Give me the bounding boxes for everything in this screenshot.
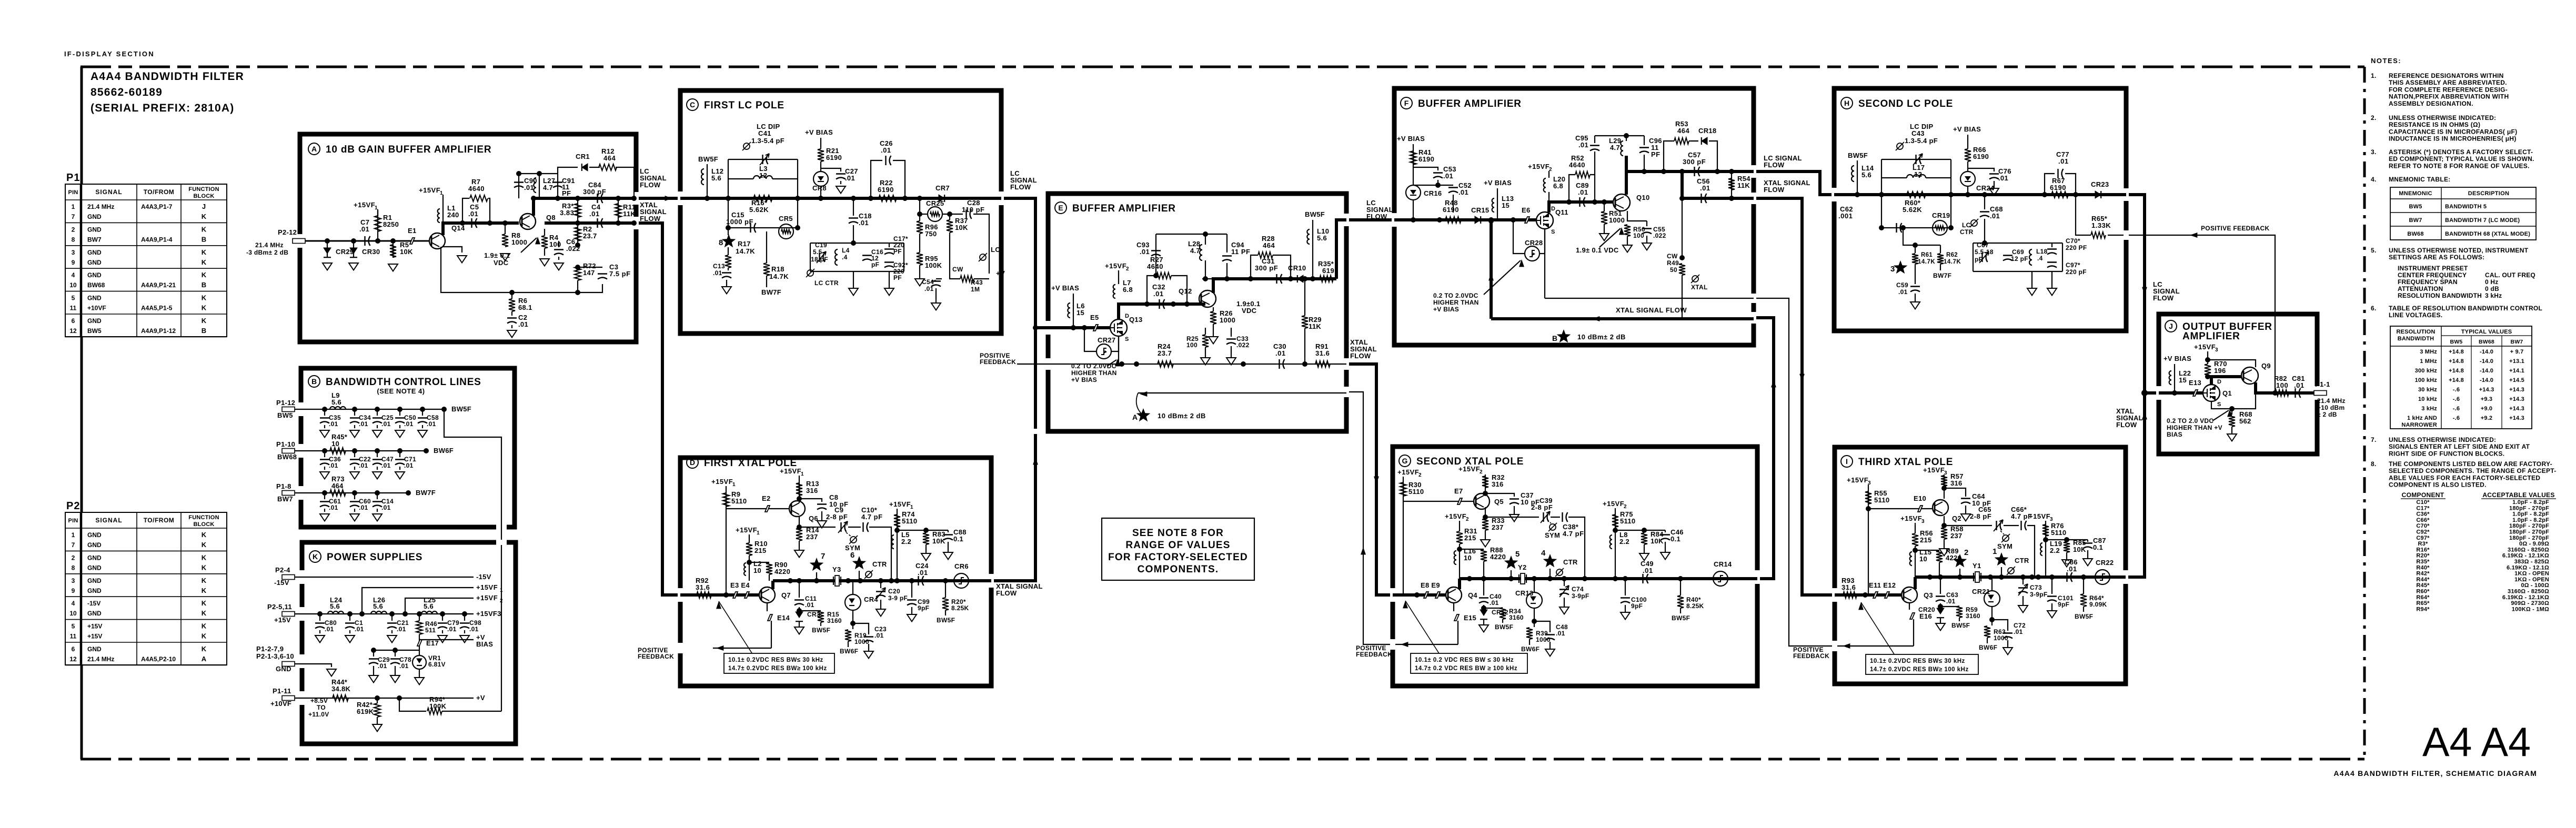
- svg-text:6.19KΩ - 12.1Ω: 6.19KΩ - 12.1Ω: [2507, 564, 2549, 571]
- svg-text:P1-2-7,9: P1-2-7,9: [256, 645, 284, 653]
- capacitor C69: [2003, 256, 2012, 261]
- svg-text:85662-60189: 85662-60189: [90, 86, 163, 98]
- svg-text:BW6F: BW6F: [840, 648, 858, 655]
- BW5 filter row: [282, 407, 295, 412]
- svg-text:Y1: Y1: [1973, 562, 1981, 570]
- ground H filter: [2031, 271, 2032, 288]
- diode CR16 circled: [1406, 185, 1421, 200]
- svg-text:R43: R43: [971, 279, 983, 286]
- svg-text:P2-4: P2-4: [275, 566, 290, 574]
- svg-text:2: 2: [72, 554, 75, 561]
- svg-text:-3 dBm± 2 dB: -3 dBm± 2 dB: [246, 249, 288, 256]
- svg-text:GND: GND: [87, 541, 102, 549]
- svg-text:E5: E5: [1090, 314, 1099, 321]
- svg-text:4: 4: [1541, 549, 1546, 558]
- svg-text:S: S: [1551, 229, 1555, 235]
- svg-text:P1-12: P1-12: [276, 399, 295, 407]
- D vdc box: [724, 653, 834, 673]
- diode CR14 circled: [1713, 571, 1728, 586]
- svg-text:SYM: SYM: [1997, 542, 2012, 550]
- svg-text:1KΩ - OPEN: 1KΩ - OPEN: [2514, 571, 2549, 577]
- svg-text:+15V: +15V: [87, 623, 102, 630]
- svg-text:1: 1: [1993, 547, 1997, 556]
- svg-text:14.7± 0.2 VDC RES BW ≥ 100 kHz: 14.7± 0.2 VDC RES BW ≥ 100 kHz: [1415, 665, 1517, 672]
- inductor L8: [1610, 535, 1612, 549]
- feedthrough E17: [419, 634, 420, 650]
- wire D XTAL out up to E: [991, 328, 1035, 581]
- arrowhead D feedback: [716, 645, 723, 651]
- feedthrough E1: [410, 238, 415, 244]
- capacitor C81: [2296, 388, 2301, 398]
- svg-text:SEE NOTE 8 FOR: SEE NOTE 8 FOR: [1132, 528, 1224, 539]
- svg-text:UNLESS OTHERWISE INDICATED:: UNLESS OTHERWISE INDICATED:: [2389, 114, 2496, 122]
- wire F main out bus: [1626, 170, 1754, 173]
- svg-text:R64*: R64*: [2416, 594, 2430, 601]
- resistor R58: [1944, 516, 1945, 527]
- svg-text:8250: 8250: [383, 220, 399, 228]
- wire G main bus: [1460, 577, 1757, 580]
- svg-text:14.7K: 14.7K: [1918, 259, 1935, 265]
- svg-text:14.7± 0.2VDC RES BW≥ 100 kHz: 14.7± 0.2VDC RES BW≥ 100 kHz: [1870, 667, 1969, 673]
- svg-text:PF: PF: [893, 274, 902, 281]
- svg-text:A: A: [311, 145, 317, 153]
- svg-text:FIRST LC POLE: FIRST LC POLE: [704, 100, 784, 111]
- svg-text:.01: .01: [359, 225, 369, 233]
- svg-text:3: 3: [72, 577, 75, 584]
- function block A frame: [300, 134, 636, 342]
- svg-text:XTAL: XTAL: [1691, 284, 1708, 291]
- diode CR25 circled: [928, 207, 942, 221]
- svg-text:10: 10: [331, 440, 339, 448]
- capacitor C94: [1226, 234, 1227, 253]
- svg-text:100K: 100K: [925, 261, 942, 269]
- svg-text:FOR FACTORY-SELECTED: FOR FACTORY-SELECTED: [1108, 552, 1248, 563]
- svg-text:11K: 11K: [1737, 181, 1750, 189]
- svg-text:6190: 6190: [826, 154, 842, 161]
- svg-text:619: 619: [1322, 267, 1334, 275]
- svg-text:-15V: -15V: [87, 600, 100, 607]
- svg-text:C70*: C70*: [2416, 523, 2430, 529]
- svg-text:REFER TO NOTE 8 FOR RANGE OF V: REFER TO NOTE 8 FOR RANGE OF VALUES.: [2389, 162, 2530, 169]
- star 3 H: [1894, 260, 1908, 274]
- svg-text:I: I: [1846, 457, 1848, 466]
- svg-text:464: 464: [603, 154, 616, 162]
- svg-text:+14.3: +14.3: [2509, 406, 2524, 412]
- svg-text:S: S: [2217, 401, 2221, 408]
- wire R83 C88 rail: [894, 528, 900, 533]
- capacitor C46: [1665, 530, 1666, 532]
- diode CR20: [1940, 603, 1941, 608]
- svg-text:10K: 10K: [932, 537, 945, 545]
- svg-text:FUNCTION: FUNCTION: [188, 186, 219, 193]
- svg-text:1000: 1000: [1536, 636, 1551, 643]
- svg-text:1.3-5.4 pF: 1.3-5.4 pF: [751, 137, 784, 145]
- svg-text:pF: pF: [1975, 256, 1983, 263]
- svg-text:NOTES:: NOTES:: [2371, 57, 2401, 65]
- wire Q2 collector row: [1941, 523, 1947, 528]
- svg-text:+15VF3: +15VF3: [476, 610, 501, 618]
- svg-text:RIGHT SIDE OF FUNCTION BLOCKS.: RIGHT SIDE OF FUNCTION BLOCKS.: [2389, 450, 2504, 457]
- capacitor C63: [1940, 577, 1941, 594]
- svg-text:0 dB: 0 dB: [2485, 285, 2499, 292]
- svg-text:5.6: 5.6: [711, 174, 721, 182]
- resistor R15: [818, 611, 824, 622]
- svg-text:2: 2: [1624, 504, 1627, 510]
- wire Q7 collector to bus: [771, 581, 774, 589]
- svg-text:BW5: BW5: [2450, 339, 2463, 345]
- svg-text:GND: GND: [87, 259, 102, 266]
- svg-text:-15V: -15V: [274, 579, 289, 587]
- svg-text:CR7: CR7: [935, 184, 950, 192]
- svg-text:21.4 MHz: 21.4 MHz: [255, 241, 284, 249]
- capacitor C72: [1992, 620, 2008, 631]
- svg-text:(SERIAL PREFIX: 2810A): (SERIAL PREFIX: 2810A): [90, 102, 234, 114]
- capacitor C84: [598, 194, 603, 203]
- svg-text:4220: 4220: [774, 568, 790, 575]
- svg-text:3: 3: [1890, 265, 1895, 274]
- svg-text:100: 100: [549, 240, 561, 248]
- svg-text:R35*: R35*: [2416, 559, 2430, 565]
- resistor R37: [947, 211, 952, 217]
- svg-text:+9.0: +9.0: [2481, 406, 2493, 412]
- svg-text:+13.1: +13.1: [2509, 358, 2524, 365]
- svg-text:15: 15: [1502, 201, 1510, 209]
- svg-text:C36*: C36*: [2416, 511, 2430, 518]
- svg-text:CR10: CR10: [1288, 264, 1306, 272]
- svg-text:BW7F: BW7F: [1933, 272, 1951, 279]
- svg-text:BANDWIDTH 7 (LC MODE): BANDWIDTH 7 (LC MODE): [2445, 217, 2520, 224]
- feedthrough E2: [726, 508, 790, 509]
- svg-text:K: K: [202, 622, 207, 630]
- svg-text:5110: 5110: [902, 517, 917, 525]
- svg-text:.01: .01: [1153, 290, 1164, 298]
- svg-text:4.7: 4.7: [543, 184, 553, 191]
- feedthrough E7: [1403, 501, 1473, 502]
- SYM annotation I: [2003, 535, 2009, 541]
- svg-text:CR6: CR6: [954, 562, 969, 570]
- svg-text:4.7: 4.7: [1190, 247, 1200, 255]
- svg-text:K: K: [202, 563, 207, 571]
- svg-text:R40*: R40*: [2416, 564, 2430, 571]
- fet Q11: [1536, 212, 1553, 229]
- wire F inner thin: [1545, 298, 1754, 299]
- trim capacitor C67: [1979, 251, 1989, 263]
- svg-text:Q6: Q6: [809, 514, 818, 522]
- svg-text:+15VF: +15VF: [1397, 468, 1419, 476]
- resistor R52 bypass: [1569, 175, 1575, 202]
- svg-text:BANDWIDTH 5: BANDWIDTH 5: [2445, 204, 2487, 210]
- top rail E: [1156, 234, 1227, 235]
- wire R84 C46 rail: [1613, 528, 1618, 533]
- svg-text:10: 10: [1464, 554, 1472, 562]
- svg-text:TO/FROM: TO/FROM: [144, 517, 175, 524]
- resistor R25: [1205, 328, 1206, 335]
- svg-text:A4 A4: A4 A4: [2422, 719, 2531, 765]
- svg-text:CR16: CR16: [1424, 189, 1442, 197]
- diode CR22 circled: [2095, 570, 2110, 584]
- svg-text:5: 5: [72, 623, 75, 630]
- inductor L2: [744, 563, 746, 575]
- svg-text:.01: .01: [1990, 212, 2000, 220]
- svg-text:562: 562: [2239, 417, 2251, 425]
- svg-text:K: K: [202, 587, 207, 594]
- resistor R1: [377, 210, 378, 241]
- svg-text:GND: GND: [87, 295, 102, 302]
- capacitor C101: [2051, 577, 2052, 594]
- trim capacitor C9: [841, 522, 847, 532]
- svg-text:CR1: CR1: [576, 153, 590, 160]
- block E title: [1055, 202, 1066, 214]
- svg-text:12: 12: [1914, 170, 1922, 178]
- capacitor C76: [1968, 168, 1994, 171]
- svg-text:1.9± 0.1 VDC: 1.9± 0.1 VDC: [1576, 246, 1619, 254]
- svg-text:0.2 TO 2.0 VDC: 0.2 TO 2.0 VDC: [2167, 417, 2213, 425]
- capacitor C5: [472, 218, 477, 228]
- svg-text:B: B: [311, 377, 317, 386]
- diode CR8 circled: [813, 171, 828, 186]
- svg-text:180pF - 270pF: 180pF - 270pF: [2509, 535, 2549, 541]
- svg-text:E1: E1: [408, 227, 417, 235]
- svg-text:+ 9.7: + 9.7: [2510, 349, 2524, 355]
- inductor L7: [1113, 285, 1115, 298]
- wire F xtal inner: [1491, 317, 1754, 320]
- svg-text:0.2 TO 2.0VDC: 0.2 TO 2.0VDC: [1071, 362, 1116, 370]
- svg-text:UNLESS OTHERWISE NOTED, INSTRU: UNLESS OTHERWISE NOTED, INSTRUMENT: [2389, 247, 2529, 254]
- svg-text:P2-1-3,6-10: P2-1-3,6-10: [256, 652, 294, 660]
- resistor R72: [575, 267, 581, 280]
- feedthrough E10: [1868, 508, 1932, 509]
- node dots E out bus: [1224, 276, 1230, 281]
- svg-text:-.6: -.6: [2453, 415, 2460, 421]
- transistor Q10: [1613, 194, 1630, 211]
- arrowhead H feedback: [2190, 233, 2197, 238]
- svg-text:A4A4 BANDWIDTH FILTER: A4A4 BANDWIDTH FILTER: [90, 70, 244, 83]
- resistor R18: [766, 231, 767, 263]
- capacitor C3: [578, 267, 602, 268]
- wire A feedback bottom: [441, 247, 578, 292]
- svg-text:-.6: -.6: [2453, 387, 2460, 393]
- svg-text:.01: .01: [1700, 184, 1710, 192]
- ground C filter: [853, 271, 854, 288]
- diode CR28 circled: [1525, 246, 1539, 261]
- svg-text:K: K: [202, 541, 207, 549]
- transistor Q6: [789, 501, 805, 517]
- svg-text:.01: .01: [874, 632, 884, 639]
- svg-text:15: 15: [1076, 309, 1084, 317]
- svg-text:CR21: CR21: [1972, 588, 1990, 595]
- connector P1-1: [2314, 391, 2327, 396]
- svg-text:SIGNAL: SIGNAL: [95, 517, 122, 524]
- inductor L25: [421, 611, 437, 614]
- D feedback internals: [771, 621, 772, 648]
- svg-text:GND: GND: [87, 226, 102, 233]
- svg-text:R44*: R44*: [2416, 577, 2430, 583]
- svg-text:LC: LC: [991, 246, 1000, 254]
- svg-text:1.: 1.: [2371, 72, 2377, 79]
- fet Q13: [1110, 319, 1127, 336]
- svg-text:.01: .01: [359, 462, 368, 469]
- svg-text:C73: C73: [2030, 584, 2042, 591]
- capacitor C100: [1625, 579, 1626, 595]
- svg-text:8.: 8.: [2371, 460, 2377, 468]
- wire C LC out to E: [1001, 198, 1035, 328]
- svg-text:14.7K: 14.7K: [736, 247, 755, 255]
- svg-text:D: D: [1551, 206, 1555, 212]
- inductor L3: [753, 176, 772, 179]
- svg-text:7: 7: [72, 541, 75, 549]
- inductor L22: [2169, 371, 2171, 385]
- see note 8 box: [1102, 518, 1254, 580]
- inductor L26: [371, 611, 387, 614]
- svg-text:INDUCTANCE IS IN MICROHENRIES(: INDUCTANCE IS IN MICROHENRIES( μH): [2389, 135, 2517, 143]
- svg-text:A: A: [1132, 413, 1138, 421]
- star B F: [1557, 329, 1571, 342]
- svg-text:CR23: CR23: [2091, 180, 2109, 188]
- svg-text:180pF - 270pF: 180pF - 270pF: [2509, 529, 2549, 536]
- svg-text:A4A4 BANDWIDTH FILTER, SCHEMAT: A4A4 BANDWIDTH FILTER, SCHEMATIC DIAGRAM: [2333, 769, 2537, 777]
- svg-text:C74: C74: [1572, 585, 1584, 593]
- svg-text:TABLE OF RESOLUTION BANDWIDTH: TABLE OF RESOLUTION BANDWIDTH CONTROL: [2389, 305, 2542, 312]
- block D title: [687, 457, 698, 468]
- svg-text:VDC: VDC: [1242, 307, 1257, 315]
- svg-text:+V BIAS: +V BIAS: [1071, 376, 1097, 383]
- svg-text:C54*: C54*: [922, 278, 937, 286]
- svg-text:.01: .01: [881, 146, 891, 154]
- svg-text:10: 10: [753, 567, 761, 574]
- node dots D bus: [788, 578, 793, 583]
- svg-text:6190: 6190: [1443, 206, 1459, 214]
- svg-text:LINE VOLTAGES.: LINE VOLTAGES.: [2389, 311, 2442, 319]
- svg-text:1000: 1000: [1220, 316, 1235, 324]
- svg-text:BW5F: BW5F: [1305, 210, 1325, 218]
- svg-text:Q3: Q3: [1924, 591, 1933, 599]
- node dots F bus: [1566, 199, 1572, 205]
- svg-text:P1-1: P1-1: [2315, 380, 2330, 388]
- svg-text:.01: .01: [1140, 248, 1150, 256]
- svg-text:K: K: [202, 304, 207, 312]
- inductor L6: [1068, 303, 1070, 318]
- capacitor C68: [1982, 192, 1987, 197]
- svg-text:5110: 5110: [731, 497, 747, 505]
- node dots E bus: [1144, 301, 1150, 307]
- svg-text:FLOW: FLOW: [2153, 294, 2174, 302]
- svg-text:CR27: CR27: [1098, 336, 1115, 344]
- capacitor C6: [558, 241, 559, 247]
- svg-text:R62: R62: [1946, 252, 1958, 258]
- feedthrough E5: [1093, 325, 1098, 331]
- svg-text:P1-11: P1-11: [273, 687, 291, 695]
- svg-text:CENTER FREQUENCY: CENTER FREQUENCY: [2398, 271, 2467, 279]
- resistor R88: [1457, 547, 1462, 552]
- svg-text:5.6: 5.6: [330, 602, 340, 610]
- svg-text:CW: CW: [1667, 253, 1678, 260]
- svg-text:10.1± 0.2VDC RES BW≤ 30 kHz: 10.1± 0.2VDC RES BW≤ 30 kHz: [728, 657, 823, 663]
- svg-text:pF: pF: [871, 261, 879, 268]
- wire I main bus: [1915, 575, 2126, 579]
- svg-text:4.7 pF: 4.7 pF: [861, 513, 883, 521]
- svg-text:23.7: 23.7: [1158, 349, 1172, 357]
- svg-text:GND: GND: [87, 271, 102, 279]
- svg-text:+14.5: +14.5: [2509, 377, 2524, 383]
- transistor Q4: [1446, 587, 1462, 603]
- svg-text:CR5: CR5: [779, 215, 793, 223]
- svg-text:A4A9,P1-4: A4A9,P1-4: [141, 236, 173, 243]
- svg-text:F: F: [1404, 99, 1409, 107]
- svg-text:9: 9: [72, 587, 75, 594]
- resistor R24: [1158, 361, 1173, 367]
- svg-text:.01: .01: [1643, 567, 1653, 574]
- svg-text:Q5: Q5: [1494, 498, 1504, 506]
- junction dot H/I to J: [2141, 390, 2148, 396]
- svg-text:UNLESS OTHERWISE INDICATED:: UNLESS OTHERWISE INDICATED:: [2389, 436, 2496, 443]
- svg-text:+V BIAS: +V BIAS: [1433, 306, 1459, 313]
- svg-text:6190: 6190: [1418, 155, 1434, 163]
- svg-text:8.25K: 8.25K: [951, 604, 969, 612]
- svg-text:+9.3: +9.3: [2481, 396, 2493, 402]
- svg-text:2: 2: [72, 226, 75, 233]
- svg-text:COMPONENTS.: COMPONENTS.: [1138, 564, 1219, 575]
- wire BW5F to block K: [444, 409, 501, 711]
- svg-text:4: 4: [72, 600, 75, 607]
- resistor R28 bypass: [1251, 255, 1258, 279]
- wire A main bus: [452, 221, 519, 225]
- svg-text:+V BIAS: +V BIAS: [805, 128, 833, 136]
- svg-text:FOR COMPLETE REFERENCE DESIG-: FOR COMPLETE REFERENCE DESIG-: [2389, 86, 2508, 93]
- wire A LC out to C: [634, 197, 680, 200]
- svg-text:68.1: 68.1: [518, 304, 532, 311]
- svg-text:+15VF: +15VF: [889, 500, 911, 508]
- svg-text:300 pF: 300 pF: [1683, 158, 1706, 166]
- svg-text:-15V: -15V: [476, 573, 491, 581]
- resistor R32: [1482, 476, 1488, 488]
- svg-text:E: E: [1058, 204, 1063, 212]
- svg-text:BW5F: BW5F: [451, 405, 471, 413]
- wire E lower line: [1017, 363, 1346, 365]
- svg-text:CTR: CTR: [1960, 228, 1974, 236]
- svg-text:K: K: [202, 632, 207, 640]
- resistor R41: [1410, 151, 1416, 165]
- capacitor C49: [1643, 574, 1648, 583]
- connector P1-11: [282, 696, 295, 701]
- svg-text:-14.0: -14.0: [2480, 358, 2493, 365]
- svg-text:34.8K: 34.8K: [331, 685, 351, 693]
- inductor L4: [835, 249, 838, 265]
- svg-text:E13: E13: [2189, 379, 2201, 387]
- svg-text:E6: E6: [1522, 206, 1531, 214]
- diode CR1 and resistor R12 branch: [558, 167, 578, 174]
- svg-text:100K: 100K: [429, 702, 447, 710]
- trim capacitor C19: [817, 251, 826, 263]
- svg-text:3160Ω - 8250Ω: 3160Ω - 8250Ω: [2508, 589, 2549, 595]
- diode CR6 circled: [954, 573, 969, 588]
- svg-text:.01: .01: [1490, 599, 1499, 607]
- svg-text:.01: .01: [329, 420, 338, 428]
- svg-text:+15VF: +15VF: [476, 583, 498, 591]
- svg-text:.01: .01: [518, 320, 528, 328]
- capacitor C96: [1644, 136, 1645, 145]
- svg-text:1 MHz: 1 MHz: [2420, 358, 2437, 365]
- svg-text:A4A3,P1-7: A4A3,P1-7: [141, 203, 173, 210]
- svg-text:10K: 10K: [955, 224, 968, 231]
- wire Q12 collector: [1213, 279, 1336, 293]
- svg-text:.01: .01: [378, 662, 387, 670]
- svg-text:619K: 619K: [357, 708, 374, 715]
- resolution bandwidth table: [2390, 326, 2532, 429]
- svg-text:Y3: Y3: [832, 566, 841, 573]
- svg-text:300 pF: 300 pF: [583, 188, 606, 196]
- svg-text:BW7: BW7: [2409, 217, 2422, 224]
- svg-text:2-8 pF: 2-8 pF: [826, 513, 848, 521]
